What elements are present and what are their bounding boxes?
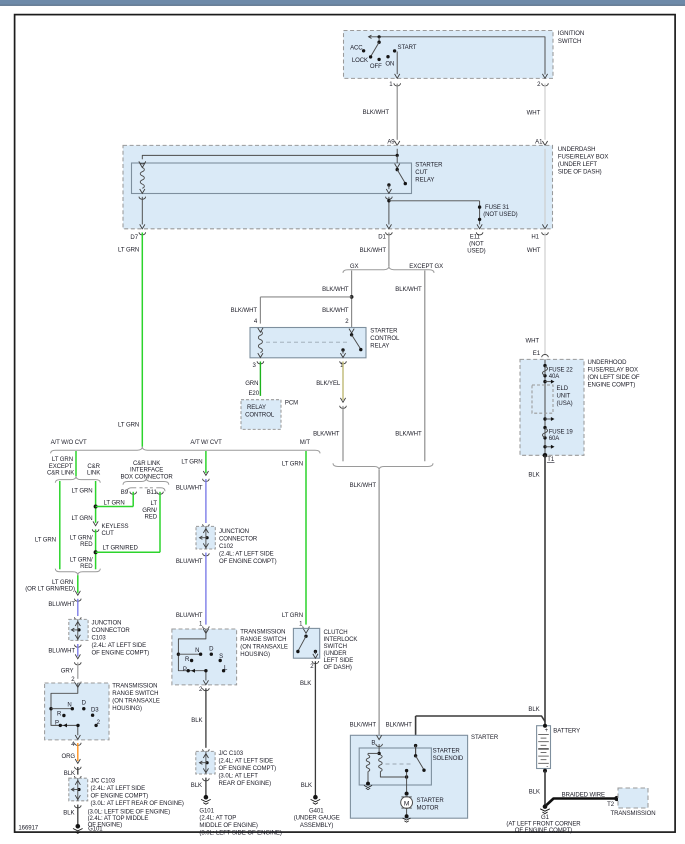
svg-text:GRY: GRY [61,669,74,675]
svg-text:RED: RED [80,564,93,570]
label starter motor [417,798,445,811]
solenoid coil ground [364,782,372,790]
TRS1 contacts and wiper [49,683,98,739]
svg-text:(UNDER GAUGE: (UNDER GAUGE [294,816,340,822]
svg-text:A1: A1 [535,140,543,146]
connector H1 [531,224,548,240]
svg-text:TRANSMISSION: TRANSMISSION [610,811,655,817]
svg-text:+: + [545,728,549,734]
dashed link line [266,341,348,343]
svg-text:FUSE 22: FUSE 22 [549,367,574,373]
label G101 left [88,809,170,832]
wire BLK to C103 lower [64,767,78,777]
svg-text:N: N [67,702,71,708]
connector E20 [248,391,263,402]
svg-text:(3.0L: AT LEFT REAR OF ENGINE): (3.0L: AT LEFT REAR OF ENGINE) [91,801,184,807]
connector pin2 below clutch switch [310,661,318,670]
svg-text:C&R: C&R [87,464,100,470]
svg-text:N: N [195,648,199,654]
svg-text:LT GRN: LT GRN [282,613,303,619]
node merge c&r branches [55,569,100,576]
connector pin2 range switch [71,677,81,685]
connector D7 [130,224,145,240]
starter cut relay U-DASH [132,163,412,194]
ignition switch position labels [350,45,417,70]
inline connector LT GRN to BLU/WHT [203,471,210,482]
svg-text:ACC: ACC [350,45,363,51]
svg-text:BLK: BLK [301,783,312,789]
svg-text:ORG: ORG [61,754,75,760]
svg-text:OF ENGINE COMPT): OF ENGINE COMPT) [515,828,573,834]
svg-text:ELD: ELD [557,386,569,392]
svg-text:BLK: BLK [191,783,202,789]
wire BLK clutch to G401 [300,661,315,797]
pin 2 connector (ignition) [537,82,548,88]
svg-text:FUSE/RELAY BOX: FUSE/RELAY BOX [588,368,638,374]
wire WHT inside box A1-H1 [544,149,546,225]
clutch interlock switch contacts [296,629,318,658]
connector pin1 [340,361,347,369]
starter control relay contacts [340,329,362,358]
node split A/T W/O CVT / A/T W CVT / M/T [51,440,320,453]
svg-text:HOUSING): HOUSING) [112,706,142,712]
svg-text:ASSEMBLY): ASSEMBLY) [300,823,334,829]
svg-text:ON: ON [385,61,394,67]
ground G101 left [73,824,83,833]
svg-text:BATTERY: BATTERY [553,729,580,735]
svg-text:CONTROL: CONTROL [245,412,275,418]
svg-text:(2.4L: AT LEFT SIDE: (2.4L: AT LEFT SIDE [219,552,274,558]
svg-text:M/T: M/T [300,440,311,446]
svg-text:LT GRN: LT GRN [104,501,125,507]
svg-text:TRANSMISSION: TRANSMISSION [112,684,157,690]
label starter cut relay [415,163,443,184]
label PCM [285,400,298,406]
svg-text:(3.0L: LEFT SIDE OF ENGINE): (3.0L: LEFT SIDE OF ENGINE) [199,830,281,836]
svg-text:STARTER: STARTER [433,749,461,755]
connector E11 [467,224,485,254]
svg-text:LT GRN: LT GRN [181,460,202,466]
connector E1 [533,351,549,357]
svg-text:USED): USED) [467,248,485,254]
label c&r link interface box connector [120,461,173,481]
label lt grn (or lt grn/red) [25,580,75,593]
drawing number [18,825,38,831]
svg-text:RELAY: RELAY [415,178,434,184]
svg-text:MIDDLE OF ENGINE): MIDDLE OF ENGINE) [199,823,258,829]
svg-text:JUNCTION: JUNCTION [219,529,249,535]
label starter [471,735,499,741]
TRS2 contacts and wiper [177,629,226,685]
connector cup below C103 middle [203,778,210,781]
connector A9 [387,140,400,152]
underhood fuse/relay box [520,359,584,455]
connector pin2 starter control relay [345,319,355,330]
c&r link interface bracket [123,478,169,485]
label underdash box [558,147,608,176]
wire BLK T1 to battery [528,455,545,725]
svg-text:BLK/WHT: BLK/WHT [386,722,413,728]
svg-text:(UNDER: (UNDER [324,651,348,657]
svg-text:BLK/WHT: BLK/WHT [350,483,377,489]
label junction connector C103 [92,620,150,656]
svg-text:LT GRN: LT GRN [71,489,92,495]
connector cup above C103 [75,617,82,620]
svg-text:D3: D3 [91,707,99,713]
starter control relay box [250,328,366,358]
svg-text:RANGE SWITCH: RANGE SWITCH [240,637,286,643]
svg-text:-: - [546,763,548,770]
svg-text:LT GRN: LT GRN [282,462,303,468]
svg-text:(NOT: (NOT [469,242,484,248]
ignition switch internal wiring [362,35,548,78]
svg-text:A/T W/ CVT: A/T W/ CVT [190,440,222,446]
connector cup above C102 [203,524,210,527]
TRS2 position labels [183,647,228,673]
svg-text:RED: RED [80,542,93,548]
svg-text:BLK/WHT: BLK/WHT [363,110,390,116]
svg-text:E20: E20 [248,391,259,397]
svg-text:FUSE/RELAY BOX: FUSE/RELAY BOX [558,155,608,161]
svg-text:LT GRN: LT GRN [52,457,73,463]
svg-text:LT GRN/RED: LT GRN/RED [103,546,139,552]
wire BLK/WHT D1 down [360,233,389,267]
svg-text:BRAIDED WIRE: BRAIDED WIRE [562,792,605,798]
svg-text:SIDE OF DASH): SIDE OF DASH) [558,170,602,176]
label c&r link [87,464,101,477]
ground G1 [506,804,581,834]
svg-text:C103: C103 [92,635,107,641]
svg-text:WHT: WHT [527,248,541,254]
svg-text:CLUTCH: CLUTCH [324,630,348,636]
label underhood box [588,360,640,389]
svg-text:GX: GX [350,264,359,270]
svg-text:SOLENOID: SOLENOID [433,756,464,762]
svg-text:166917: 166917 [18,825,38,831]
svg-text:B9: B9 [121,490,129,496]
solenoid hold-in coil [379,755,383,771]
terminal T1 [543,453,555,463]
svg-text:60A: 60A [549,436,561,442]
wire BLK/WHT merged to starter [350,470,379,735]
svg-text:CONNECTOR: CONNECTOR [219,537,258,543]
svg-text:BLU/WHT: BLU/WHT [176,486,203,492]
label IGNITION SWITCH [558,31,584,45]
svg-text:R: R [57,712,62,718]
svg-text:EXCEPT: EXCEPT [49,464,73,470]
svg-text:J/C C103: J/C C103 [219,751,244,757]
svg-text:R: R [185,657,190,663]
node split GX / EXCEPT GX [343,264,443,273]
svg-text:C102: C102 [219,544,234,550]
svg-text:UNDERDASH: UNDERDASH [558,147,596,153]
connector pin1 TRS2 [199,622,209,630]
label junction connector C102 [219,529,277,565]
node merge GX branches [333,463,433,470]
svg-text:BLK/WHT: BLK/WHT [395,287,422,293]
svg-text:OFF: OFF [370,64,382,70]
wire BLU/WHT below C103 [48,644,77,656]
svg-text:(2.4L: AT LEFT SIDE: (2.4L: AT LEFT SIDE [92,643,147,649]
svg-text:BLK/WHT: BLK/WHT [360,248,387,254]
wire BLU/WHT to TRS2 [176,553,206,625]
wire BLK/WHT to merge [313,406,343,461]
svg-text:OF ENGINE COMPT): OF ENGINE COMPT) [219,766,277,772]
wire BLK/WHT EXCEPT GX branch [395,271,425,462]
svg-text:GRN/: GRN/ [142,508,157,514]
relay output connector [386,197,393,200]
svg-text:D7: D7 [130,235,138,241]
svg-text:(3.0L: AT LEFT: (3.0L: AT LEFT [219,774,259,780]
starter motor M1 [401,792,413,809]
wire WHT ignition pin2 to A1 [527,84,545,140]
transmission box [610,788,655,817]
wire battery feed to starter [386,716,545,746]
svg-text:LT GRN: LT GRN [118,248,139,254]
svg-text:(2.4L: AT TOP: (2.4L: AT TOP [199,816,236,822]
svg-text:BLK: BLK [528,707,539,713]
svg-text:(AT LEFT FRONT CORNER: (AT LEFT FRONT CORNER [506,821,581,827]
starter outer box [350,735,467,818]
solenoid pull-in coil [366,755,370,771]
svg-text:BLU/WHT: BLU/WHT [176,613,203,619]
wire BLK/YEL pin1 down [316,362,343,401]
PCM relay control box [241,400,281,430]
svg-text:(ON TRANSAXLE: (ON TRANSAXLE [240,645,288,651]
junction connector C103 (upper) [69,619,88,640]
wire BLK battery to G1 [529,771,545,807]
svg-text:FUSE 31: FUSE 31 [485,205,510,211]
inline connector BLK/YEL to BLK/WHT [340,398,347,408]
label starter solenoid [433,749,464,762]
solenoid internal wiring [368,744,426,794]
relay coil pin connector (bottom) [139,189,146,199]
connector pin4 below TRS1 [71,742,81,748]
wire LT GRN branch 2 [181,451,206,473]
wire LT GRN D7 trunk [118,233,142,447]
label G401 [294,809,340,829]
svg-text:LT GRN/: LT GRN/ [70,535,93,541]
wire LT GRN/RED from B11 [96,492,160,553]
svg-text:RELAY: RELAY [247,405,266,411]
ground G401 [311,795,321,804]
junction connector J/C C103 (middle) [196,751,215,774]
svg-text:BLK: BLK [529,790,540,796]
svg-text:(ON TRANSAXLE: (ON TRANSAXLE [112,699,160,705]
connector cup above C103 middle [203,749,210,752]
svg-text:BLK/WHT: BLK/WHT [350,722,377,728]
svg-text:P: P [55,720,59,726]
svg-text:OF ENGINE COMPT): OF ENGINE COMPT) [219,559,277,565]
connector B starter [371,735,382,746]
svg-text:LT GRN: LT GRN [52,580,73,586]
svg-text:D: D [209,647,214,653]
svg-text:40A: 40A [549,374,561,380]
svg-text:A/T W/O CVT: A/T W/O CVT [51,440,87,446]
svg-text:G101: G101 [199,809,214,815]
svg-text:S: S [219,654,223,660]
fuse 22 40A [542,366,573,380]
wire relay output to D1 with fuse31 tap [387,197,479,225]
keyless cut connector [92,521,128,537]
svg-text:BLK/WHT: BLK/WHT [322,308,349,314]
connector A1 [535,140,548,152]
wire BLK/WHT GX branch [231,271,354,328]
wire GRY to range switch [61,662,78,678]
svg-text:(2.4L: AT TOP MIDDLE: (2.4L: AT TOP MIDDLE [88,816,149,822]
svg-text:START: START [398,45,417,51]
starter cut relay coil [140,168,144,189]
label battery [553,729,580,735]
wire BLK TRS2 to C103 middle [191,688,206,748]
svg-text:STARTER: STARTER [417,798,445,804]
svg-text:UNIT: UNIT [557,393,571,399]
svg-text:CONTROL: CONTROL [370,336,400,342]
svg-text:B: B [371,740,375,746]
wire LT GRN branch 1 [52,451,76,476]
svg-text:(UNDER LEFT: (UNDER LEFT [558,162,597,168]
svg-text:IGNITION: IGNITION [558,31,584,37]
wire LT GRN c&r branch upper [71,481,133,523]
svg-text:BLK/WHT: BLK/WHT [395,432,422,438]
wire GRN pin3 to E20 [245,362,260,396]
svg-text:RELAY: RELAY [370,343,389,349]
svg-text:BLK: BLK [64,771,75,777]
svg-text:BLK/YEL: BLK/YEL [316,381,341,387]
label except c&r link [47,464,74,477]
ground G101 middle [201,795,211,804]
svg-text:INTERLOCK: INTERLOCK [324,637,358,643]
svg-text:UNDERHOOD: UNDERHOOD [588,360,628,366]
svg-text:JUNCTION: JUNCTION [92,620,122,626]
svg-text:REAR OF ENGINE): REAR OF ENGINE) [219,781,272,787]
svg-text:LOCK: LOCK [352,58,368,64]
wire BLU/WHT to C103 [48,599,77,616]
svg-text:C&R LINK: C&R LINK [133,461,160,467]
connector cup above C103 lower [75,776,82,779]
TRS1 position labels [55,701,101,727]
inline connector to GRY [75,654,82,665]
connector B9 [121,490,137,496]
svg-text:BLK: BLK [63,810,74,816]
svg-text:ENGINE COMPT): ENGINE COMPT) [588,383,636,389]
wire BLK/WHT ignition pin1 to A9 [363,84,398,140]
svg-text:SWITCH: SWITCH [558,39,581,45]
connector B11 [147,490,164,496]
label starter control relay [370,328,400,349]
svg-text:B11: B11 [147,490,158,496]
ignition switch box [344,31,554,79]
relay coil pin connector (top) [139,161,146,167]
svg-text:BLK/WHT: BLK/WHT [231,308,258,314]
svg-text:FUSE 19: FUSE 19 [549,429,574,435]
wire LT GRN M/T branch [282,451,306,625]
connector pin4 starter control relay [254,319,264,330]
solenoid dashed link [386,763,413,765]
svg-text:BLK/WHT: BLK/WHT [313,432,340,438]
svg-text:PCM: PCM [285,400,298,406]
svg-text:STARTER: STARTER [415,163,443,169]
fuse 31 (not used) [478,205,518,221]
connector cup below C103 [75,645,82,648]
braided wire to transmission [547,792,620,808]
label J/C C103 middle [219,751,277,787]
svg-text:P: P [183,667,187,673]
svg-text:RANGE SWITCH: RANGE SWITCH [112,691,158,697]
c&r link connector body [127,488,165,491]
inline connector ORG to BLK [75,759,82,770]
svg-text:SWITCH: SWITCH [324,644,347,650]
wire LT GRN except-c&r [35,481,60,569]
inline connector to BLU/WHT [75,591,82,602]
svg-text:LT GRN: LT GRN [71,516,92,522]
clutch interlock switch box [293,628,319,658]
wire WHT H1 to E1 [525,233,545,355]
fuse 19 60A [542,428,573,442]
svg-text:OF ENGINE COMPT): OF ENGINE COMPT) [92,650,150,656]
svg-text:D1: D1 [378,235,386,241]
svg-text:BLU/WHT: BLU/WHT [48,602,75,608]
label J/C C103 lower [91,779,184,808]
svg-text:GRN: GRN [245,381,258,387]
svg-text:INTERFACE: INTERFACE [130,468,163,474]
wire coil to D7 [141,197,143,225]
svg-text:(OR LT GRN/RED): (OR LT GRN/RED) [25,587,75,593]
svg-text:LEFT SIDE: LEFT SIDE [324,658,354,664]
svg-text:KEYLESS: KEYLESS [102,524,129,530]
connector pin3 [253,361,264,369]
ELD unit box [532,385,573,413]
starter control relay coil [258,328,263,358]
svg-text:WHT: WHT [527,111,541,117]
svg-text:CUT: CUT [102,531,115,537]
wire LT GRN/RED c&r branch lower [70,529,98,569]
svg-text:BLU/WHT: BLU/WHT [176,559,203,565]
connector D1 [378,224,392,240]
svg-text:LINK: LINK [87,471,100,477]
battery [537,724,551,773]
node split except-C&R / C&R [55,476,100,483]
svg-text:CONNECTOR: CONNECTOR [92,628,131,634]
svg-text:E11: E11 [470,235,481,241]
svg-text:G401: G401 [309,809,324,815]
svg-text:(USA): (USA) [557,401,573,407]
svg-text:H1: H1 [531,235,539,241]
svg-text:A9: A9 [387,140,395,146]
svg-text:(2.4L: AT LEFT SIDE: (2.4L: AT LEFT SIDE [219,759,274,765]
svg-text:C&R LINK: C&R LINK [47,471,74,477]
svg-text:G1: G1 [541,815,550,821]
svg-text:STARTER: STARTER [471,735,499,741]
wire BLK to G101 left [63,805,78,827]
wire BLU/WHT to C102 [176,479,206,523]
svg-text:M: M [404,800,409,807]
svg-text:G101: G101 [88,826,103,832]
svg-text:STARTER: STARTER [370,328,398,334]
svg-text:RED: RED [144,515,157,521]
svg-text:LT GRN: LT GRN [35,538,56,544]
svg-text:BLK: BLK [191,718,202,724]
svg-text:EXCEPT GX: EXCEPT GX [409,264,443,270]
transmission range switch TRS1 box [45,683,109,740]
svg-text:(NOT USED): (NOT USED) [483,212,517,218]
svg-text:HOUSING): HOUSING) [240,652,270,658]
svg-text:D: D [82,701,87,707]
svg-text:J/C C103: J/C C103 [91,779,116,785]
wire LT GRN merged [77,575,79,593]
wire ORG [61,743,77,761]
underhood internal wire and taps [543,359,554,455]
